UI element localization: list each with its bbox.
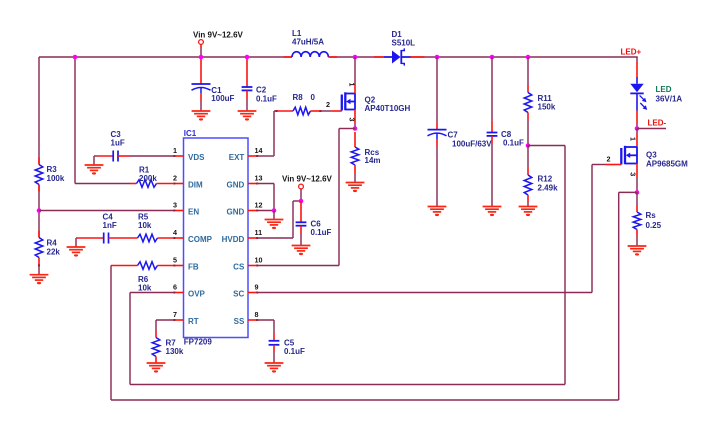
svg-text:4: 4 [173,228,177,237]
svg-text:EXT: EXT [229,153,245,162]
wire HVDD to Vin port [258,201,302,238]
svg-text:14: 14 [255,146,263,155]
ground C5 [265,363,284,373]
svg-text:36V/1A: 36V/1A [656,95,683,104]
pin 13 GND [227,174,263,190]
svg-text:1uF: 1uF [111,139,125,148]
ground C8 [483,207,502,217]
wire C3 to VDS pin [130,155,175,157]
capacitor C1 [192,59,235,111]
resistor R8 0 [276,93,333,115]
svg-text:C7: C7 [448,131,459,140]
pin 1 VDS [173,146,205,162]
svg-text:0.1uF: 0.1uF [284,347,305,356]
svg-text:S510L: S510L [392,39,416,48]
ground C3 [85,165,104,175]
svg-text:47uH/5A: 47uH/5A [292,38,324,47]
svg-text:1: 1 [629,137,638,141]
svg-text:130k: 130k [166,347,184,356]
svg-text:11: 11 [255,228,263,237]
net label LED- and stub [635,119,667,131]
ground Rs [628,246,647,256]
svg-text:C3: C3 [111,130,122,139]
svg-text:200k: 200k [139,174,157,183]
node L1-D1-Q2 junction [353,55,358,60]
svg-text:SS: SS [234,317,245,326]
svg-text:0: 0 [311,93,316,102]
capacitor C7 [428,57,493,207]
pin 8 SS [234,310,259,326]
wire rail corner to LED [636,57,638,77]
svg-text:COMP: COMP [188,235,213,244]
power port Vin 9V~12.6V top [193,31,244,58]
svg-text:EN: EN [188,208,199,217]
svg-text:Rs: Rs [646,211,657,220]
wire SS to C5 [258,320,275,334]
ground C4 [67,247,86,257]
svg-text:0.1uF: 0.1uF [503,139,524,148]
node C7 rail junction [435,55,440,60]
node Q3 source junction [635,190,640,195]
ground Rcs [346,183,365,193]
svg-text:CS: CS [233,263,245,272]
svg-text:0.1uF: 0.1uF [311,228,332,237]
svg-text:3: 3 [348,118,357,122]
node C2 rail junction [245,55,250,60]
diode LED 36V/1A [630,77,682,129]
svg-text:14m: 14m [365,156,381,165]
ground R7 [147,363,166,373]
pin 6 OVP [173,283,206,299]
wire CS to Q2 source [258,129,356,266]
wire FB feedback loop from Q3 source [111,192,637,400]
capacitor C5 [269,334,305,364]
svg-text:3: 3 [629,172,638,176]
pin 9 SC [233,283,258,299]
svg-text:Q3: Q3 [646,151,657,160]
pin 3 EN [173,201,199,217]
svg-text:GND: GND [227,181,245,190]
node EN junction [37,208,42,213]
svg-text:R7: R7 [166,338,177,347]
svg-text:AP40T10GH: AP40T10GH [365,104,411,113]
svg-text:HVDD: HVDD [222,235,245,244]
inductor L1 [284,29,338,57]
resistor R12 [524,146,558,207]
resistor R4 [35,231,60,258]
ground C2 [238,111,257,121]
ground C1 [192,111,211,121]
pin 7 RT [173,310,199,326]
ground R12 [519,207,538,217]
svg-text:150k: 150k [538,103,556,112]
pin 14 EXT [229,146,263,162]
svg-text:1nF: 1nF [103,221,117,230]
wire SC to Q3 gate [258,165,607,293]
transistor Q2 AP40T10GH [326,57,411,129]
svg-text:100k: 100k [47,174,65,183]
wire left vertical R3 column [38,57,40,275]
resistor R3 [35,158,65,192]
resistor R1 [75,165,174,187]
wire EN row [39,210,174,212]
svg-text:9: 9 [255,283,259,292]
svg-text:0.1uF: 0.1uF [256,94,277,103]
pin 4 COMP [173,228,213,244]
svg-text:1: 1 [173,146,177,155]
resistor Rs [633,192,661,246]
ground C7 [428,207,447,217]
svg-text:DIM: DIM [188,181,203,190]
svg-text:1: 1 [348,83,357,87]
node C1 rail junction [199,55,204,60]
resistor R5 [109,213,175,242]
node R11 rail junction [526,55,531,60]
pin 12 GND [227,201,263,217]
svg-text:SC: SC [233,290,244,299]
power port Vin 9V~12.6V HVDD [282,175,333,204]
capacitor C2 [242,59,277,111]
ground C6 [292,246,311,256]
transistor Q3 AP9685GM [606,129,688,193]
svg-text:100uF/63V: 100uF/63V [452,139,492,148]
svg-text:LED: LED [656,85,672,94]
svg-text:Vin 9V~12.6V: Vin 9V~12.6V [282,175,333,184]
capacitor C4 [76,213,117,248]
svg-text:10k: 10k [138,284,152,293]
svg-text:C2: C2 [256,86,267,95]
pin 10 CS [233,256,262,272]
svg-text:100uF: 100uF [211,94,234,103]
svg-text:2: 2 [326,100,330,109]
top power rail [39,56,638,58]
svg-text:VDS: VDS [188,153,205,162]
svg-text:2.49k: 2.49k [538,184,559,193]
svg-text:R4: R4 [47,239,58,248]
svg-text:RT: RT [188,317,199,326]
svg-text:AP9685GM: AP9685GM [646,160,688,169]
svg-text:R3: R3 [47,165,58,174]
capacitor C6 [296,201,332,246]
svg-text:FB: FB [188,263,199,272]
svg-text:R8: R8 [293,93,304,102]
pin 11 HVDD [222,228,262,244]
svg-text:22k: 22k [47,248,61,257]
wire rail drop x75 [73,55,78,184]
wire OVP feedback loop from R11-R12 [130,146,565,385]
resistor Rcs [351,132,380,183]
svg-text:3: 3 [173,201,177,210]
svg-text:R12: R12 [538,175,553,184]
capacitor C8 [487,57,524,207]
node Q2 source junction [353,126,358,131]
capacitor C3 [94,130,130,165]
svg-text:2: 2 [607,155,611,164]
resistor R6 [111,262,174,293]
node C8 rail junction [490,55,495,60]
diode D1 S510L [374,30,425,66]
svg-text:Vin 9V~12.6V: Vin 9V~12.6V [193,31,244,40]
svg-text:7: 7 [173,310,177,319]
svg-text:0.25: 0.25 [646,221,662,230]
pin 2 DIM [173,174,203,190]
svg-text:10k: 10k [138,221,152,230]
svg-text:LED-: LED- [648,119,667,128]
resistor R11 [524,57,556,146]
node R11-R12 junction [526,143,531,148]
svg-text:OVP: OVP [188,290,206,299]
svg-text:GND: GND [227,208,245,217]
svg-text:12: 12 [255,201,263,210]
svg-text:2: 2 [173,174,177,183]
wire GND pins 13 12 to ground [258,184,277,220]
svg-text:8: 8 [255,310,259,319]
wire EXT to R8 riser [258,111,276,156]
ground R4 [30,275,49,285]
svg-text:10: 10 [255,256,263,265]
ground IC GND pins [265,220,284,230]
svg-text:5: 5 [173,256,177,265]
svg-text:IC1: IC1 [184,129,197,138]
net label LED+ [621,48,642,57]
resistor R7 [152,331,184,364]
op-amp U1 FP7209 IC body [184,129,249,346]
svg-text:FP7209: FP7209 [184,337,213,346]
svg-text:13: 13 [255,174,263,183]
wire RT to R7 [156,320,174,331]
svg-text:6: 6 [173,283,177,292]
pin 5 FB [173,256,199,272]
svg-text:LED+: LED+ [621,48,642,57]
